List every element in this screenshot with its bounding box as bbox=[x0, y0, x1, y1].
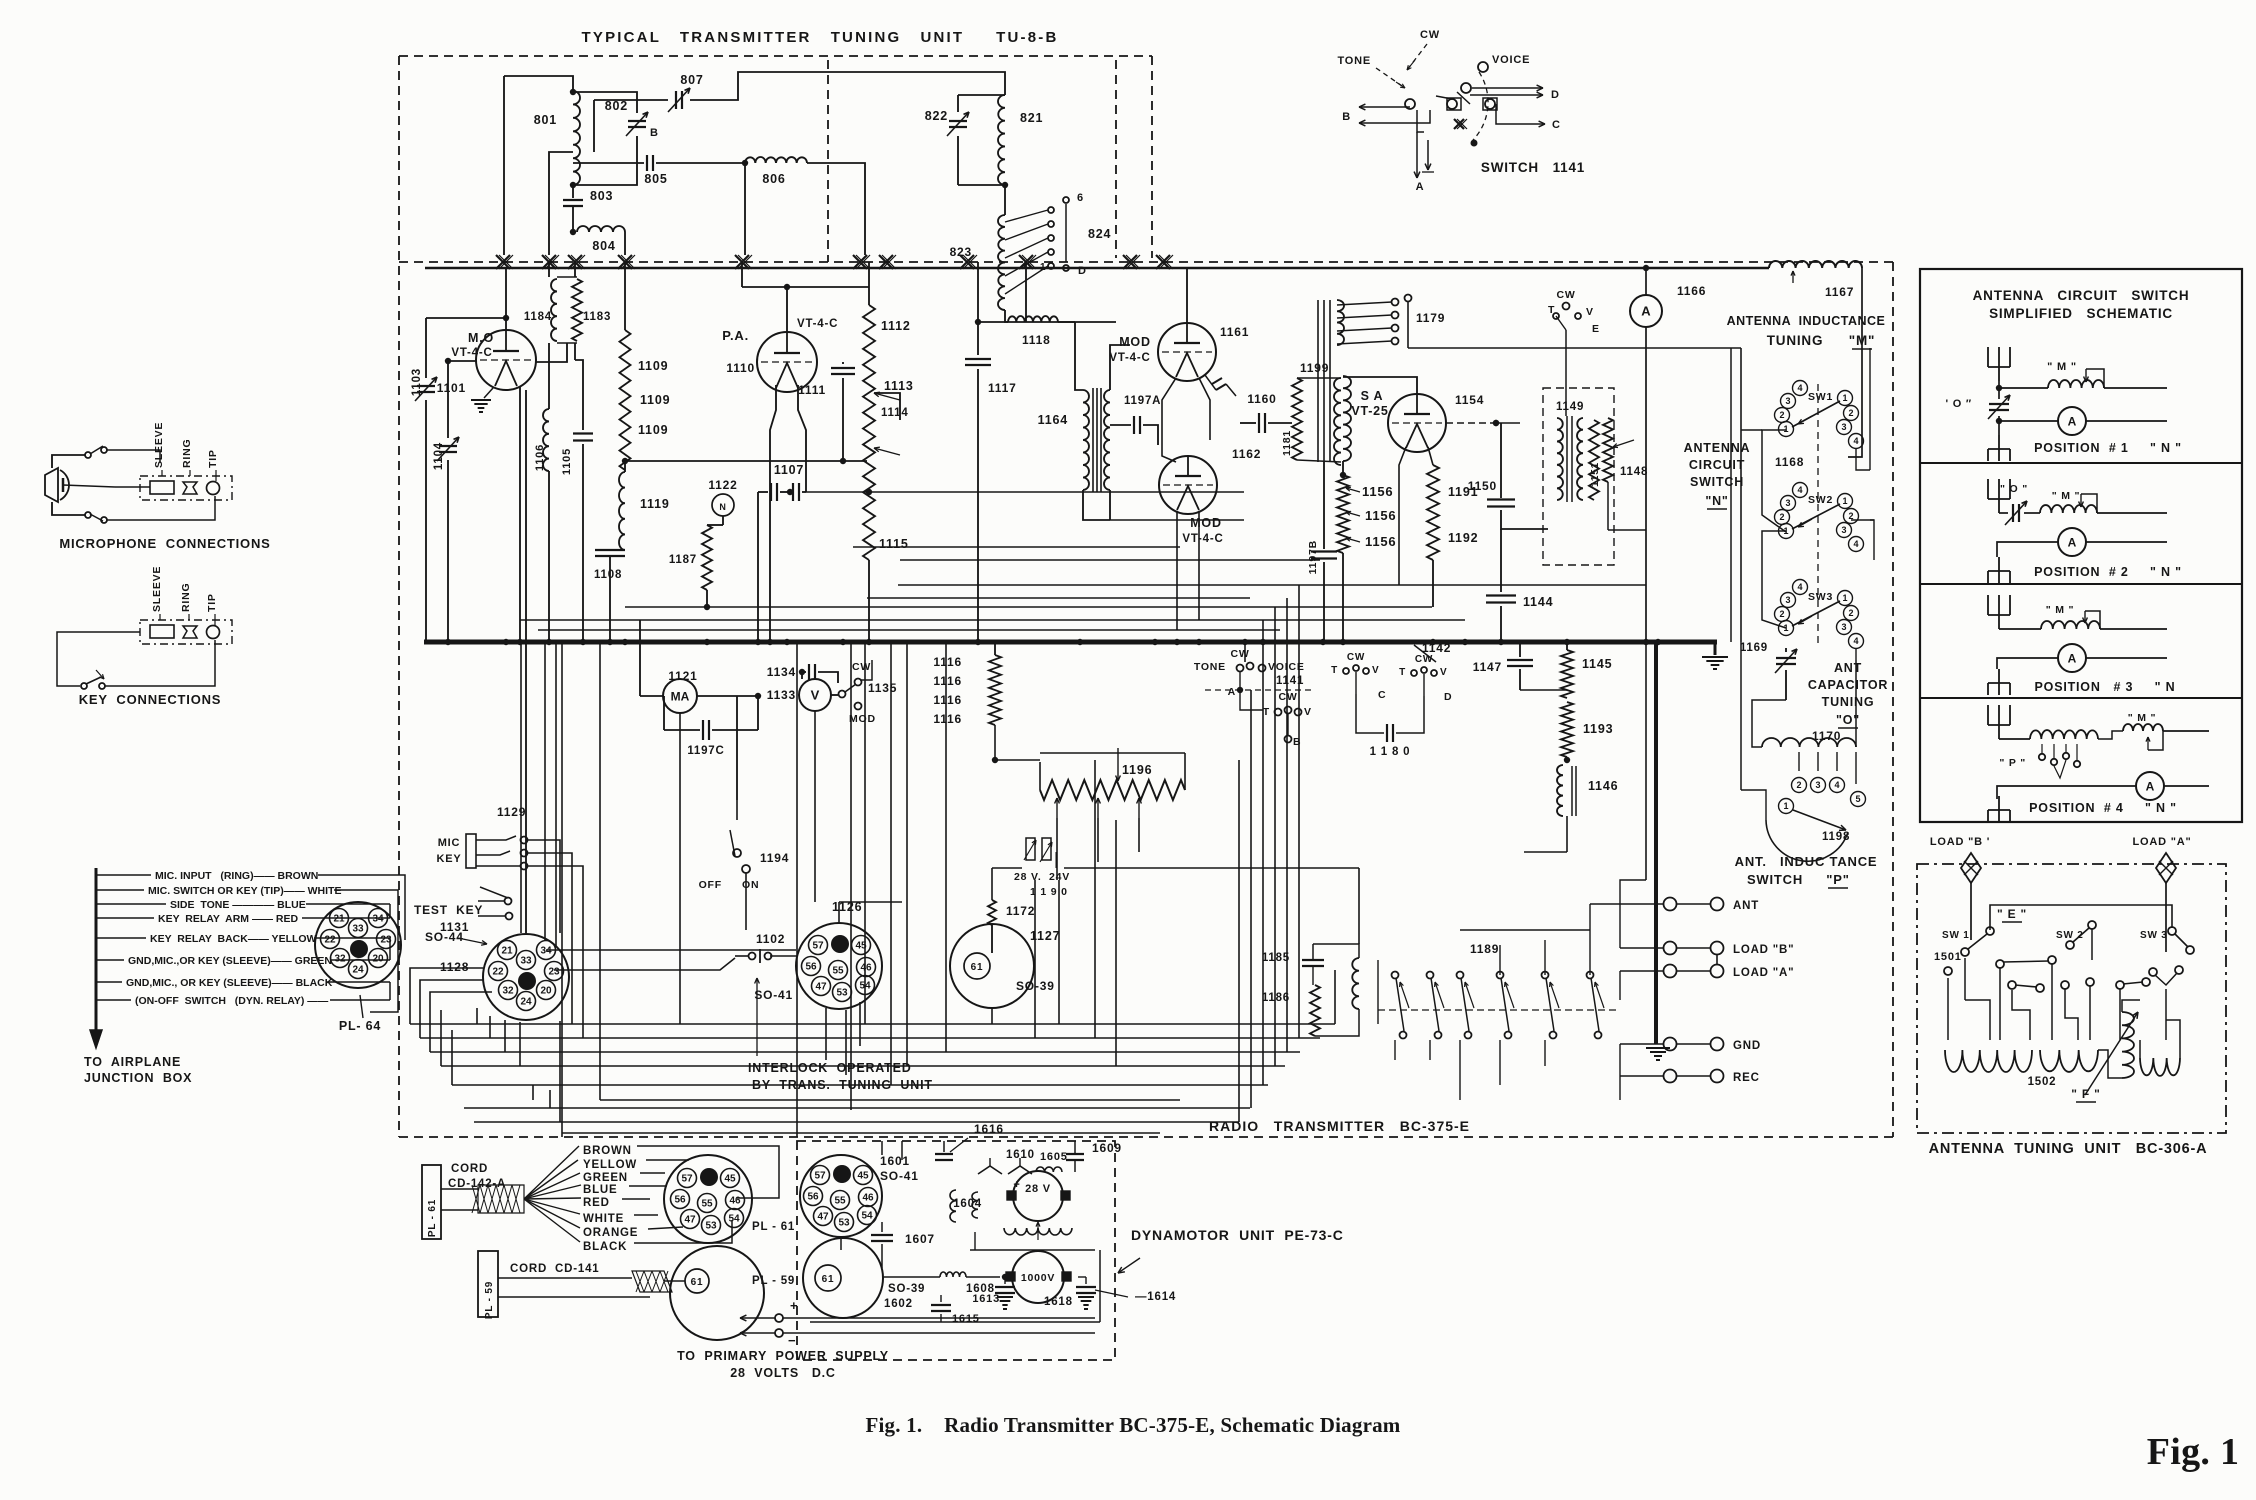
svg-text:YELLOW: YELLOW bbox=[583, 1159, 637, 1171]
svg-text:1135: 1135 bbox=[868, 681, 897, 695]
svg-text:PL - 59: PL - 59 bbox=[752, 1275, 795, 1287]
svg-text:1113: 1113 bbox=[884, 379, 914, 393]
svg-text:A: A bbox=[1641, 304, 1651, 319]
svg-text:A: A bbox=[2068, 651, 2077, 665]
svg-text:MIC: MIC bbox=[438, 837, 461, 849]
wire 806 junction down bbox=[744, 163, 746, 255]
capacitor 1607 bbox=[881, 1222, 883, 1232]
svg-text:CORD CD-141: CORD CD-141 bbox=[510, 1263, 599, 1275]
ammeter 1166 bbox=[1630, 295, 1662, 327]
svg-text:POSITION # 3 " N: POSITION # 3 " N bbox=[2035, 680, 2176, 694]
svg-text:D: D bbox=[1551, 89, 1560, 101]
svg-text:802: 802 bbox=[605, 99, 628, 113]
svg-text:1148: 1148 bbox=[1620, 466, 1648, 478]
svg-text:1142: 1142 bbox=[1422, 641, 1451, 655]
svg-text:4: 4 bbox=[1853, 636, 1858, 646]
svg-text:DYNAMOTOR UNIT PE-73-C: DYNAMOTOR UNIT PE-73-C bbox=[1131, 1227, 1344, 1243]
svg-text:T: T bbox=[1263, 706, 1270, 718]
svg-text:BLACK: BLACK bbox=[583, 1241, 627, 1253]
svg-text:C: C bbox=[1378, 689, 1386, 701]
wire harness trunk to airplane junction box bbox=[95, 868, 98, 1035]
svg-text:1192: 1192 bbox=[1448, 531, 1478, 545]
svg-text:1110: 1110 bbox=[726, 361, 755, 375]
wire harness row RED bbox=[96, 917, 154, 919]
svg-text:PL - 61: PL - 61 bbox=[752, 1221, 795, 1233]
svg-text:1167: 1167 bbox=[1825, 285, 1854, 299]
wire 1183 pair to grid bbox=[536, 343, 567, 362]
switch 1141 arrows B bbox=[1359, 106, 1392, 108]
svg-text:A: A bbox=[2146, 779, 2155, 793]
capacitor 805 bbox=[573, 162, 644, 164]
svg-text:1147: 1147 bbox=[1473, 660, 1502, 674]
svg-text:1189: 1189 bbox=[1470, 942, 1499, 956]
svg-text:1179: 1179 bbox=[1416, 311, 1445, 325]
position 2 coil M bbox=[2024, 512, 2040, 514]
svg-text:POSITION # 4 " N ": POSITION # 4 " N " bbox=[2029, 801, 2177, 815]
svg-text:804: 804 bbox=[592, 239, 615, 253]
svg-text:MICROPHONE CONNECTIONS: MICROPHONE CONNECTIONS bbox=[59, 536, 270, 551]
svg-text:1: 1 bbox=[1842, 496, 1847, 506]
svg-text:1109: 1109 bbox=[640, 393, 670, 407]
connector PL-64 bbox=[315, 902, 401, 988]
svg-text:21: 21 bbox=[501, 946, 513, 957]
position 3 coil M bbox=[2041, 621, 2100, 629]
terminal GND bbox=[1664, 1038, 1677, 1051]
svg-text:TEST KEY: TEST KEY bbox=[414, 903, 483, 917]
svg-text:57: 57 bbox=[812, 941, 824, 952]
wire harness row YELLOW bbox=[96, 937, 146, 939]
wire 1179 to right bbox=[1408, 347, 1741, 349]
inductor 801 bbox=[573, 91, 580, 185]
antenna lead-in diamond right bbox=[2156, 853, 2176, 883]
svg-text:46: 46 bbox=[860, 963, 872, 974]
capacitor 803 bbox=[572, 185, 574, 198]
svg-text:KEY RELAY ARM —— RED: KEY RELAY ARM —— RED bbox=[158, 913, 298, 925]
svg-text:" O ": " O " bbox=[2000, 483, 2028, 495]
wire 1113 tap right bbox=[874, 393, 900, 420]
svg-text:ANTENNA TUNING UNIT BC-306: ANTENNA TUNING UNIT BC-306-A bbox=[1929, 1141, 2208, 1157]
svg-text:56: 56 bbox=[674, 1195, 686, 1206]
svg-text:1144: 1144 bbox=[1523, 595, 1553, 609]
svg-text:TUNING: TUNING bbox=[1767, 333, 1824, 348]
svg-text:LOAD "A": LOAD "A" bbox=[1733, 967, 1794, 979]
svg-text:56: 56 bbox=[805, 962, 817, 973]
connector SO-41 bbox=[796, 923, 882, 1009]
svg-text:SW 1: SW 1 bbox=[1942, 930, 1970, 941]
svg-text:1128: 1128 bbox=[440, 960, 469, 974]
svg-text:2: 2 bbox=[1796, 780, 1801, 790]
enclosure RADIO TRANSMITTER BC-375-E dashed box bbox=[398, 56, 400, 1137]
thick vertical to GND bbox=[1654, 642, 1658, 1044]
svg-text:(ON-OFF SWITCH (DYN. RELAY): (ON-OFF SWITCH (DYN. RELAY) —— bbox=[135, 995, 329, 1007]
capacitor 1111 bbox=[842, 362, 844, 364]
vacuum tube P.A. VT-4-C 1110 bbox=[757, 332, 817, 392]
antenna lead-in diamond left bbox=[1961, 853, 1981, 883]
svg-text:PL - 59: PL - 59 bbox=[484, 1281, 495, 1319]
svg-text:V: V bbox=[811, 688, 820, 703]
svg-text:A: A bbox=[1416, 181, 1425, 193]
wire M.O plate bbox=[505, 269, 507, 330]
svg-text:1184: 1184 bbox=[524, 311, 552, 323]
svg-text:GND,MIC.,OR KEY (SLEEVE)—— GRE: GND,MIC.,OR KEY (SLEEVE)—— GREEN bbox=[128, 955, 332, 967]
wire tap up bbox=[593, 100, 595, 152]
connector SO-39 1127 bbox=[950, 924, 1034, 1008]
svg-text:822: 822 bbox=[925, 109, 948, 123]
svg-text:V: V bbox=[1440, 667, 1447, 678]
wire 806 right and down bbox=[807, 163, 865, 255]
svg-text:55: 55 bbox=[834, 1196, 846, 1207]
capacitor 1147 bbox=[1519, 642, 1521, 657]
svg-text:" M ": " M " bbox=[2046, 604, 2075, 616]
svg-text:1118: 1118 bbox=[1022, 333, 1051, 347]
svg-text:1172: 1172 bbox=[1006, 904, 1035, 918]
contact D bbox=[1063, 265, 1069, 271]
dynamotor 1000V 1618 bbox=[1012, 1251, 1064, 1303]
thick ground bus bbox=[424, 640, 1717, 645]
svg-text:N: N bbox=[719, 502, 726, 512]
wires right column trunks bbox=[1740, 642, 1742, 790]
resistor 1148 bbox=[1603, 418, 1613, 482]
wire A meter bottom trunk bbox=[1645, 327, 1647, 642]
svg-text:4: 4 bbox=[1797, 383, 1802, 393]
svg-text:1502: 1502 bbox=[2028, 1076, 2057, 1088]
svg-text:1198: 1198 bbox=[1822, 831, 1850, 843]
ground at GND terminal bbox=[1646, 1047, 1670, 1049]
svg-text:SW3: SW3 bbox=[1808, 591, 1833, 603]
position 2 ground fork bbox=[1998, 557, 2000, 571]
svg-text:1: 1 bbox=[1783, 801, 1788, 811]
switch 1194 OFF ON bbox=[733, 849, 741, 857]
svg-text:TO AIRPLANE: TO AIRPLANE bbox=[84, 1055, 181, 1069]
variable capacitor 807 bbox=[675, 91, 677, 109]
svg-text:4: 4 bbox=[1853, 436, 1858, 446]
svg-text:REC: REC bbox=[1733, 1072, 1760, 1084]
wire mid horizontals bbox=[625, 606, 1432, 608]
wire grid left bbox=[448, 360, 476, 362]
svg-text:Fig. 1: Fig. 1 bbox=[2147, 1431, 2240, 1473]
svg-text:2: 2 bbox=[1779, 512, 1784, 522]
svg-text:1112: 1112 bbox=[881, 319, 911, 333]
svg-text:54: 54 bbox=[728, 1214, 740, 1225]
svg-text:CW: CW bbox=[1230, 648, 1249, 660]
svg-text:57: 57 bbox=[814, 1171, 826, 1182]
svg-text:B: B bbox=[1342, 111, 1351, 123]
antenna circuit switch N SW2 bbox=[1793, 483, 1808, 498]
svg-text:CW: CW bbox=[1420, 29, 1440, 41]
mic jack sleeve element bbox=[150, 481, 174, 494]
wire SA plate bbox=[1343, 377, 1417, 394]
svg-text:TIP: TIP bbox=[207, 449, 219, 468]
terminal REC bbox=[1664, 1070, 1677, 1083]
svg-text:1 1 8 0: 1 1 8 0 bbox=[1370, 746, 1411, 758]
svg-text:C: C bbox=[1552, 119, 1561, 131]
inductor 1146 bbox=[1557, 765, 1563, 816]
wire 1190 row bbox=[992, 867, 1022, 869]
svg-text:1161: 1161 bbox=[1220, 325, 1249, 339]
svg-text:22: 22 bbox=[492, 967, 504, 978]
wire harness row on-off switch bbox=[96, 999, 131, 1001]
ground 1101 bbox=[484, 388, 493, 398]
dynamotor 28V field coil bbox=[1004, 1228, 1072, 1235]
svg-text:" P ": " P " bbox=[1999, 757, 2026, 769]
interlock contacts row (X marks) on TU-8-B to BC-375 boundary bbox=[496, 255, 510, 269]
svg-text:1605: 1605 bbox=[1040, 1151, 1068, 1163]
cord plug PL-59 block bbox=[478, 1251, 498, 1317]
key jack tip bbox=[207, 626, 220, 639]
svg-text:CW: CW bbox=[1415, 654, 1433, 665]
antenna circuit switch N SW3 bbox=[1793, 580, 1808, 595]
svg-text:57: 57 bbox=[681, 1174, 693, 1185]
dash line through 1189 bbox=[1378, 1009, 1620, 1011]
wire A trunk below bus bbox=[1645, 642, 1647, 880]
svg-text:ANT. INDUC TANCE: ANT. INDUC TANCE bbox=[1735, 854, 1878, 869]
svg-text:1168: 1168 bbox=[1775, 455, 1804, 469]
wire SA grid dash right bbox=[1446, 422, 1496, 424]
svg-text:INTERLOCK OPERATED: INTERLOCK OPERATED bbox=[748, 1061, 912, 1075]
svg-text:A: A bbox=[2068, 535, 2077, 549]
cord fan-out wires bbox=[524, 1146, 579, 1199]
wire 822 tank top bbox=[958, 94, 1005, 96]
svg-text:SIMPLIFIED SCHEMATIC: SIMPLIFIED SCHEMATIC bbox=[1989, 306, 2173, 321]
wire SO-41 top bbox=[838, 902, 840, 923]
svg-text:MA: MA bbox=[671, 689, 690, 703]
svg-text:VOICE: VOICE bbox=[1492, 54, 1530, 66]
vacuum tube M.O VT-4-C 1101 circuit bbox=[476, 330, 536, 390]
wire 1109 junction to right bbox=[625, 460, 867, 462]
wire SO-41 bottom legs bbox=[825, 1008, 827, 1060]
wire to variable capacitor 807 bbox=[594, 99, 668, 101]
microphone symbol bbox=[45, 468, 58, 502]
svg-text:1101: 1101 bbox=[437, 381, 466, 395]
svg-text:CW: CW bbox=[1278, 691, 1297, 703]
wire harness row BROWN bbox=[96, 874, 151, 876]
interlock leader arrow bbox=[756, 978, 758, 1050]
cord braid CD-141 bbox=[632, 1271, 672, 1292]
svg-text:46: 46 bbox=[729, 1196, 741, 1207]
svg-text:61: 61 bbox=[822, 1274, 835, 1285]
wire 1148 bottom bbox=[1607, 482, 1609, 530]
cord plug PL-61 block bbox=[422, 1165, 441, 1239]
wire 801 top to 802 bbox=[573, 92, 637, 113]
capacitor 1197B bbox=[1311, 550, 1337, 552]
mic switch lower bbox=[85, 512, 91, 518]
switch 1141 arrows A bbox=[1417, 110, 1424, 132]
svg-text:1154: 1154 bbox=[1455, 393, 1484, 407]
wire lower mid horizontals bbox=[600, 1099, 1180, 1101]
svg-text:B: B bbox=[650, 127, 659, 139]
svg-text:47: 47 bbox=[817, 1212, 829, 1223]
svg-text:54: 54 bbox=[861, 1211, 873, 1222]
inductor 821 bbox=[998, 95, 1005, 185]
svg-text:1160: 1160 bbox=[1247, 392, 1276, 406]
position 1 coil M line bbox=[1999, 387, 2048, 389]
svg-text:1121: 1121 bbox=[668, 669, 697, 683]
svg-text:ORANGE: ORANGE bbox=[583, 1227, 638, 1239]
svg-text:803: 803 bbox=[590, 189, 613, 203]
svg-text:1105: 1105 bbox=[561, 448, 573, 475]
svg-text:MOD: MOD bbox=[849, 713, 876, 725]
svg-text:+: + bbox=[1013, 1179, 1020, 1191]
wire harness row GREEN bbox=[96, 959, 124, 961]
svg-text:32: 32 bbox=[334, 954, 346, 965]
svg-text:1194: 1194 bbox=[760, 851, 789, 865]
svg-text:GREEN: GREEN bbox=[583, 1172, 628, 1184]
svg-text:CAPACITOR: CAPACITOR bbox=[1808, 678, 1888, 692]
svg-text:1183: 1183 bbox=[583, 311, 611, 323]
svg-text:53: 53 bbox=[836, 988, 848, 999]
wire 802 bottom bbox=[573, 136, 637, 185]
wire harness bends to PL-64 bbox=[390, 875, 405, 940]
svg-text:MIC. SWITCH OR KEY (TIP)—— WHI: MIC. SWITCH OR KEY (TIP)—— WHITE bbox=[148, 885, 341, 897]
wires color to connector PL-61 bbox=[637, 1146, 779, 1198]
svg-text:1133: 1133 bbox=[767, 688, 796, 702]
svg-text:34: 34 bbox=[372, 914, 384, 925]
svg-text:3: 3 bbox=[1815, 780, 1820, 790]
resistor 1193 bbox=[1561, 702, 1573, 757]
dynamotor 28V bbox=[1013, 1171, 1063, 1221]
svg-text:1134: 1134 bbox=[767, 665, 796, 679]
svg-text:28 V: 28 V bbox=[1025, 1183, 1051, 1195]
svg-text:S A: S A bbox=[1361, 389, 1384, 403]
svg-text:1108: 1108 bbox=[594, 569, 622, 581]
capacitor 1117 bbox=[977, 262, 979, 355]
svg-text:−: − bbox=[788, 1333, 796, 1348]
svg-text:1193: 1193 bbox=[1583, 722, 1613, 736]
svg-text:53: 53 bbox=[838, 1218, 850, 1229]
voltmeter 1133 bbox=[799, 679, 831, 711]
svg-text:E: E bbox=[1592, 323, 1600, 335]
switch mid contacts 306 bbox=[1996, 960, 2004, 968]
svg-text:SWITCH 1141: SWITCH 1141 bbox=[1481, 160, 1585, 175]
position 2 ammeter bbox=[1997, 542, 2058, 557]
svg-text:CORD: CORD bbox=[451, 1163, 488, 1175]
svg-text:53: 53 bbox=[705, 1221, 717, 1232]
svg-text:1107: 1107 bbox=[774, 463, 804, 477]
svg-text:4: 4 bbox=[1797, 582, 1802, 592]
position 2 antenna bbox=[1998, 499, 2000, 513]
svg-text:SO-44: SO-44 bbox=[425, 930, 464, 944]
svg-text:3: 3 bbox=[1785, 595, 1790, 605]
switch arm 824 bbox=[1065, 204, 1067, 262]
svg-text:V: V bbox=[1372, 665, 1379, 676]
svg-text:56: 56 bbox=[807, 1192, 819, 1203]
svg-text:1197B: 1197B bbox=[1307, 540, 1319, 574]
terminal + - bbox=[740, 1317, 775, 1319]
svg-text:SWITCH: SWITCH bbox=[1747, 872, 1803, 887]
svg-text:POSITION # 2 " N ": POSITION # 2 " N " bbox=[2034, 565, 2182, 579]
wire bundle left steps bbox=[476, 1008, 478, 1024]
dashed connector shell mic jack bbox=[140, 476, 232, 500]
svg-text:1: 1 bbox=[1842, 593, 1847, 603]
vacuum tube MOD 1162 bbox=[1159, 456, 1217, 514]
svg-text:1618: 1618 bbox=[1044, 1296, 1073, 1308]
switch 1135 CW MOD bbox=[831, 694, 838, 696]
connector SO-39 dynamotor 1602 bbox=[803, 1238, 883, 1318]
inductor 823 tapped bbox=[998, 215, 1005, 310]
wire harness row BLUE bbox=[96, 903, 166, 905]
svg-text:GND: GND bbox=[1733, 1040, 1761, 1052]
svg-text:SW2: SW2 bbox=[1808, 494, 1833, 506]
wire bottom bundle bbox=[410, 1023, 1335, 1025]
svg-text:"P": "P" bbox=[1826, 872, 1849, 887]
capacitor 1144 bbox=[1500, 529, 1502, 592]
wire 805 to 806 bbox=[656, 162, 745, 164]
svg-text:1149: 1149 bbox=[1556, 401, 1584, 413]
svg-text:801: 801 bbox=[534, 113, 557, 127]
svg-text:6: 6 bbox=[1077, 192, 1084, 204]
wire 1116 bottom bbox=[995, 759, 1040, 761]
transformer 1149 bbox=[1557, 418, 1563, 500]
svg-text:1169: 1169 bbox=[1740, 642, 1768, 654]
svg-text:1604: 1604 bbox=[953, 1198, 982, 1210]
wire SO-39 bottom bbox=[991, 1008, 993, 1024]
svg-text:1116: 1116 bbox=[933, 693, 962, 707]
svg-text:1150: 1150 bbox=[1468, 479, 1497, 493]
position 4 ground fork bbox=[1998, 796, 2000, 810]
capacitor 1180 bbox=[1356, 694, 1384, 733]
svg-text:824: 824 bbox=[1088, 227, 1111, 241]
inductor 1119 bbox=[624, 461, 626, 472]
svg-text:1197A: 1197A bbox=[1124, 395, 1161, 407]
svg-text:3: 3 bbox=[1841, 622, 1846, 632]
position 1 variable capacitor O bbox=[1989, 403, 2009, 405]
svg-text:28 VOLTS D.C: 28 VOLTS D.C bbox=[730, 1366, 836, 1380]
svg-text:TO PRIMARY POWER SUPPLY: TO PRIMARY POWER SUPPLY bbox=[677, 1349, 889, 1363]
svg-text:MOD: MOD bbox=[1190, 516, 1222, 530]
key jack ring element bbox=[183, 626, 197, 638]
svg-text:24: 24 bbox=[520, 997, 532, 1008]
position 1 ground fork bbox=[1998, 435, 2000, 449]
vacuum tube MOD 1161 bbox=[1158, 323, 1216, 381]
svg-text:47: 47 bbox=[815, 982, 827, 993]
svg-text:LOAD "B ': LOAD "B ' bbox=[1930, 836, 1990, 848]
resistor 1145 bbox=[1566, 642, 1568, 650]
wire 1196 drops bbox=[1056, 852, 1058, 880]
svg-text:1: 1 bbox=[1783, 424, 1788, 434]
svg-text:1196: 1196 bbox=[1122, 763, 1152, 777]
svg-text:" M ": " M " bbox=[2128, 712, 2157, 724]
wire mic jack left bbox=[115, 486, 150, 488]
svg-text:1607: 1607 bbox=[905, 1232, 935, 1246]
dashed vertical through switch N bbox=[1817, 384, 1819, 645]
svg-text:P.A.: P.A. bbox=[722, 328, 749, 343]
svg-text:55: 55 bbox=[701, 1199, 713, 1210]
wire transformer bottom to 1197B bbox=[1323, 462, 1325, 549]
wire below-bus verticals bbox=[561, 642, 563, 1137]
wire 823 bottom bbox=[1005, 310, 1116, 322]
svg-text:5: 5 bbox=[1855, 794, 1860, 804]
capacitor 1150 bbox=[1500, 423, 1502, 498]
svg-text:20: 20 bbox=[372, 954, 384, 965]
resistor 1156 chain bbox=[1342, 461, 1344, 475]
svg-text:1602: 1602 bbox=[884, 1298, 913, 1310]
svg-text:1187: 1187 bbox=[669, 554, 697, 566]
dash link 1141 bbox=[1205, 689, 1313, 691]
svg-text:RING: RING bbox=[180, 583, 192, 612]
position 1 ammeter bbox=[1999, 420, 2058, 422]
wire P.A. cathode legs bbox=[770, 385, 776, 642]
svg-text:1122: 1122 bbox=[708, 478, 737, 492]
inductor 806 bbox=[745, 157, 807, 163]
enclosure ANTENNA CIRCUIT SWITCH SIMPLIFIED SCHEMATIC panel bbox=[1920, 269, 2242, 822]
enclosure TU-8-B tuning unit dashed box bbox=[399, 55, 1152, 57]
svg-text:VT-4-C: VT-4-C bbox=[451, 347, 492, 359]
connector PL-61 bbox=[664, 1155, 752, 1243]
inductor 1184 and resistor 1183 bbox=[548, 262, 550, 277]
dashed enclosure 1149 bbox=[1543, 388, 1614, 565]
position 3 antenna bbox=[1998, 615, 2000, 629]
svg-text:1117: 1117 bbox=[988, 381, 1017, 395]
